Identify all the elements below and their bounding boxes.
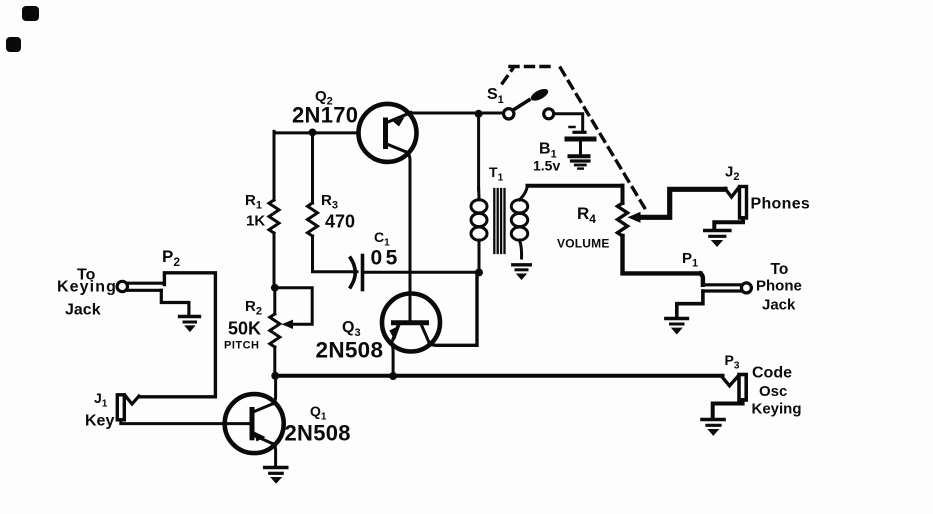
svg-text:PITCH: PITCH (224, 340, 260, 352)
ground T1 secondary (513, 263, 531, 266)
wire Q1 collector to bus (274, 376, 276, 404)
ground J2 (705, 229, 730, 233)
wire C1 to T1 junction (363, 271, 480, 274)
wire J2 sleeve to ground (714, 218, 743, 228)
jack J2 phones (740, 187, 747, 219)
plug P1 (701, 273, 703, 284)
node S1 junction (475, 110, 483, 118)
resistor R1 (269, 200, 279, 233)
wire R2 wiper loop (275, 288, 312, 325)
potentiometer R4 (618, 203, 628, 236)
svg-text:2N508: 2N508 (285, 421, 351, 446)
bus wire to P3 (275, 374, 722, 378)
plug P2 (117, 281, 127, 291)
wire R4 bottom to P1 (623, 236, 701, 273)
wire S1 to battery (554, 114, 583, 131)
node base/R3 junction (309, 129, 317, 137)
ground Q1 (265, 466, 287, 470)
ground P2 (180, 315, 200, 318)
dashed mechanical link S1-R4 (503, 67, 649, 214)
svg-text:Q3: Q3 (342, 319, 361, 339)
scan blob top-left 1 (22, 6, 39, 21)
wire Q3 emitter to bus (392, 343, 393, 376)
wire P3 sleeve to ground (713, 400, 743, 418)
scan blob top-left 2 (6, 37, 21, 52)
svg-text:2N508: 2N508 (316, 338, 384, 363)
wire junction down to T1 primary (477, 114, 480, 190)
battery B1 (570, 126, 575, 129)
svg-text:470: 470 (325, 212, 355, 232)
wire Q1 emitter to ground (274, 444, 276, 466)
wire R1 bottom to R2 junction (273, 233, 276, 288)
svg-text:S1: S1 (487, 86, 504, 106)
svg-text:Code: Code (752, 365, 792, 382)
svg-text:P2: P2 (162, 247, 180, 269)
wire Q2 base horizontal (274, 131, 358, 134)
svg-text:1K: 1K (246, 213, 265, 230)
ground P3 (702, 418, 724, 422)
svg-text:Phone: Phone (756, 278, 802, 295)
svg-text:Key: Key (85, 413, 114, 430)
node R2 top junction (271, 284, 279, 292)
transistor Q3 2N508 (382, 294, 440, 352)
svg-text:VOLUME: VOLUME (557, 237, 610, 251)
svg-text:2N170: 2N170 (292, 103, 358, 128)
ground P1 (666, 317, 688, 321)
svg-text:Jack: Jack (762, 297, 796, 314)
wire R3 bottom to C1 (313, 236, 358, 272)
transformer T1 (471, 186, 528, 273)
svg-text:Osc: Osc (759, 383, 787, 400)
resistor R2 50K pitch (270, 314, 280, 347)
switch S1 (504, 109, 514, 119)
svg-text:J1: J1 (94, 390, 108, 410)
svg-text:Phones: Phones (751, 196, 811, 213)
svg-text:J2: J2 (725, 164, 739, 184)
svg-text:R3: R3 (321, 192, 338, 212)
svg-text:50K: 50K (228, 319, 261, 339)
wire junction to R2 (273, 288, 276, 314)
svg-text:Keying: Keying (57, 279, 117, 296)
wire P2 tip up and over to J1 (139, 273, 215, 397)
node bus Q3 junction (389, 372, 397, 380)
svg-text:P3: P3 (725, 352, 740, 372)
resistor R3 (308, 203, 318, 236)
jack P3 code osc keying (739, 375, 746, 401)
transistor Q1 2N508 (225, 394, 284, 453)
wire P2 sleeve to ground (161, 290, 189, 314)
wire left column top (base to R1) (273, 131, 276, 200)
svg-text:P1: P1 (682, 250, 698, 270)
svg-text:Keying: Keying (752, 401, 802, 418)
svg-text:R1: R1 (245, 192, 262, 212)
node C1/T1/Q3 junction (475, 268, 483, 276)
wire T1 secondary to R4 top (528, 184, 623, 188)
wire R3 column top (311, 132, 314, 203)
wire Q2 emitter down to Q3 base (408, 153, 411, 322)
jack P3 contact (722, 376, 738, 386)
capacitor C1 .05 (351, 258, 356, 287)
R2 wiper arrow (282, 320, 294, 329)
wire Q3 collector loop to junction (430, 274, 478, 345)
wire P1 sleeve to ground (677, 291, 703, 317)
wire R4 wiper to J2 (638, 189, 725, 217)
jack J1 key (117, 395, 124, 420)
svg-text:1.5v: 1.5v (533, 158, 560, 174)
jack J1 contact (126, 396, 140, 404)
jack J2 contact (725, 189, 738, 198)
ground battery (572, 159, 590, 162)
svg-text:Jack: Jack (65, 302, 101, 319)
node bus left junction (271, 372, 279, 380)
svg-text:R4: R4 (577, 204, 596, 226)
wire R4 top lead (621, 186, 625, 203)
R4 wiper arrow (628, 212, 641, 223)
svg-text:05: 05 (371, 247, 401, 270)
wire J1 sleeve to Q1 base (121, 420, 252, 424)
transistor Q2 2N170 (359, 104, 417, 162)
svg-text:T1: T1 (489, 164, 504, 184)
wire R2 bottom to bus junction (273, 347, 276, 376)
svg-text:R2: R2 (245, 298, 262, 318)
svg-text:To: To (771, 261, 789, 278)
wire Q2 collector to S1 (410, 112, 503, 115)
